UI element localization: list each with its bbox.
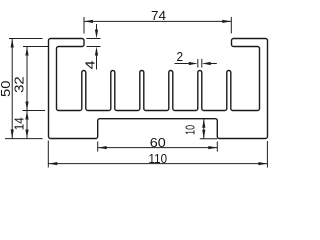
dimension 74 extension line right (230, 17, 232, 34)
dimension 2 arrow right (189, 62, 198, 65)
svg-text:32: 32 (12, 76, 27, 93)
dimension 14 arrow up (25, 111, 28, 120)
dimension 2 left leader (175, 63, 190, 65)
dimension 32 arrow down (25, 102, 28, 111)
svg-text:2: 2 (177, 49, 184, 64)
dimension 4 lower leader (96, 55, 98, 70)
dimension 4 arrow down (95, 30, 98, 39)
dimension 110 line (48, 163, 267, 165)
dimension 110 arrow right (258, 162, 267, 165)
dimension 50 extension line bottom (5, 138, 43, 140)
dimension 74 line (84, 20, 231, 22)
dimension 110 extension line left (47, 141, 49, 168)
dimension 4 arrow up (95, 47, 98, 56)
dimension 10 extension line bottom (200, 138, 218, 140)
dimension 60 line (98, 147, 218, 149)
dimension 60 extension line left (97, 142, 99, 152)
svg-text:60: 60 (150, 135, 166, 150)
dimension 60 extension line right (216, 142, 218, 152)
svg-text:110: 110 (149, 151, 168, 166)
dimension 32 arrow up (25, 47, 28, 56)
dimension 10 arrow up (202, 119, 205, 128)
dimension 110 arrow left (48, 162, 57, 165)
dimension 2 extension tick left (197, 59, 199, 68)
svg-text:14: 14 (11, 117, 26, 130)
dimension 10 arrow down (202, 130, 205, 139)
dimension 50 line (11, 39, 13, 139)
svg-text:74: 74 (151, 8, 166, 23)
dimension 10 line (203, 119, 205, 139)
dimension 74 extension line left (83, 17, 85, 34)
dimension 32 line (26, 47, 28, 111)
heatsink profile outline (49, 39, 268, 139)
dimension 74 arrow left (84, 20, 93, 23)
svg-text:4: 4 (82, 60, 97, 69)
dimension 14 line (26, 111, 28, 139)
dimension 60 arrow left (98, 146, 107, 149)
dimension 50 arrow down (11, 130, 14, 139)
dimension 4 upper leader (96, 24, 98, 30)
svg-text:10: 10 (183, 125, 198, 135)
dimension 4 extension tick top (87, 38, 101, 40)
dimension 2 right leader (211, 63, 217, 65)
dimension 2 extension tick right (201, 59, 203, 68)
dimension 14 arrow down (25, 130, 28, 139)
dimension 110 extension line right (266, 141, 268, 168)
dimension 32/14 shared extension line (23, 110, 46, 112)
dimension 32 extension line top (23, 46, 49, 48)
dimension 74 arrow right (222, 20, 231, 23)
dimension 50 extension line top (9, 38, 43, 40)
dimension 2 arrow left (202, 62, 211, 65)
dimension 60 arrow right (208, 146, 217, 149)
dimension 4 extension tick bottom (87, 46, 101, 48)
dimension 50 arrow up (11, 39, 14, 48)
